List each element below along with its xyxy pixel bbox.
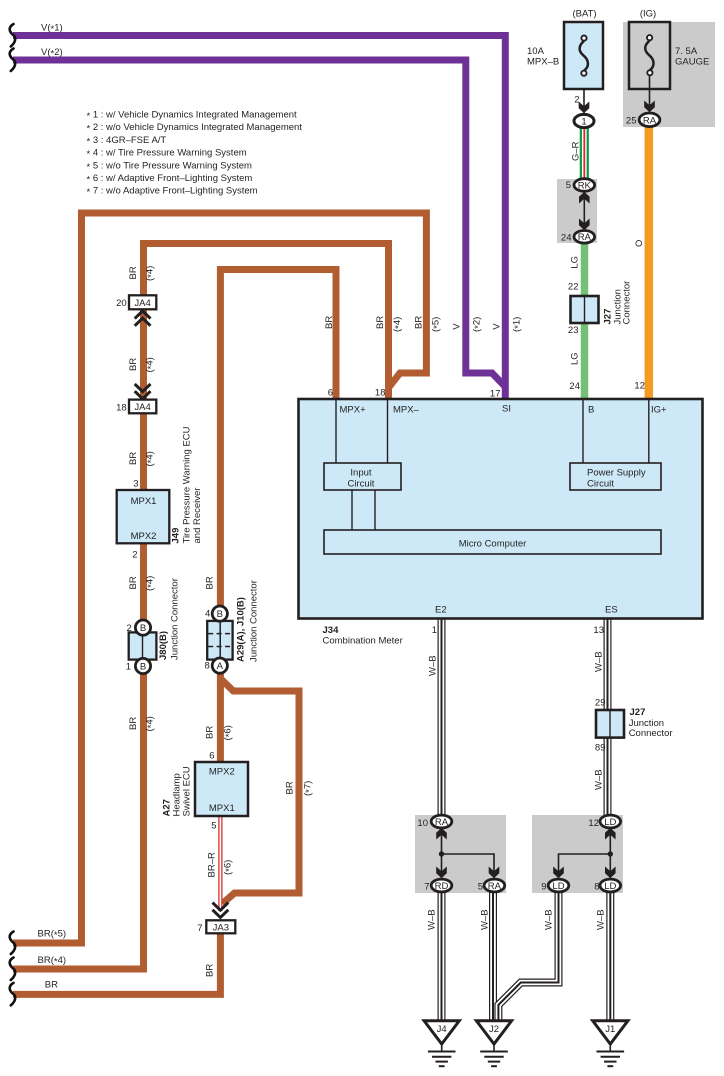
svg-text:7: 7 bbox=[424, 882, 429, 893]
internal wires input circuit to micro computer bbox=[352, 490, 375, 530]
wire BR(*5) brown outer loop from left bottom to meter pin 18 bbox=[13, 213, 426, 943]
svg-text:10: 10 bbox=[417, 818, 428, 829]
svg-text:* 4 : w/ Tire Pressure Warning: * 4 : w/ Tire Pressure Warning System bbox=[87, 148, 247, 161]
svg-text:24: 24 bbox=[561, 232, 572, 243]
svg-text:G–R: G–R bbox=[571, 141, 582, 161]
wire G-R green/red from connector 1 to RK bbox=[580, 124, 589, 183]
gray block around (IG) fuse bbox=[623, 22, 715, 127]
svg-text:Connector: Connector bbox=[629, 728, 673, 739]
connector 10 RA oval bbox=[431, 815, 452, 828]
svg-text:J2: J2 bbox=[489, 1024, 499, 1035]
junction dot bottom-right gray box bbox=[608, 851, 613, 856]
arrow down into 5 RA bbox=[489, 867, 500, 879]
svg-text:8: 8 bbox=[594, 882, 599, 893]
svg-text:(*5): (*5) bbox=[431, 317, 444, 332]
svg-text:RA: RA bbox=[488, 881, 502, 892]
internal wire pin 12 IG+ to power supply circuit bbox=[648, 400, 650, 463]
svg-text:(*2): (*2) bbox=[472, 317, 485, 332]
svg-text:17: 17 bbox=[490, 389, 501, 400]
svg-text:B: B bbox=[140, 623, 146, 634]
arrow up into 12 LD bbox=[605, 828, 616, 840]
svg-text:BR: BR bbox=[205, 964, 216, 977]
wire BR(*7) brown branch from connector A to JA3 bbox=[220, 679, 299, 904]
svg-text:A29(A), J10(B): A29(A), J10(B) bbox=[236, 597, 247, 662]
chevrons below JA4 20 bbox=[135, 311, 151, 326]
J49 tire pressure warning ECU box bbox=[117, 490, 170, 543]
frayed end V(*2) bbox=[10, 49, 15, 72]
svg-text:GAUGE: GAUGE bbox=[675, 57, 709, 68]
svg-text:Circuit: Circuit bbox=[348, 479, 375, 490]
svg-text:2: 2 bbox=[574, 95, 579, 106]
arrow into connector 1 bbox=[579, 102, 590, 114]
svg-text:W–B: W–B bbox=[427, 909, 438, 930]
fuse element BAT bbox=[580, 36, 588, 76]
fuse element IG bbox=[645, 35, 653, 75]
connector circle 4 B on A29 bbox=[212, 606, 227, 621]
junction connector J27 on W-B wire bbox=[596, 710, 624, 738]
svg-text:24: 24 bbox=[569, 381, 580, 392]
svg-text:V(*2): V(*2) bbox=[41, 47, 63, 60]
svg-text:E2: E2 bbox=[435, 605, 447, 616]
svg-text:LD: LD bbox=[604, 817, 616, 828]
gray block bottom-left (RA/RD/RA junction) bbox=[415, 815, 506, 893]
connector 12 LD oval bbox=[600, 815, 621, 828]
svg-text:(*1): (*1) bbox=[512, 317, 525, 332]
svg-text:(*4): (*4) bbox=[392, 317, 405, 332]
svg-text:2: 2 bbox=[127, 623, 132, 634]
svg-text:MPX+: MPX+ bbox=[340, 405, 367, 416]
frayed end BR bbox=[10, 983, 15, 1006]
combination meter J34 box bbox=[299, 399, 703, 619]
svg-text:3: 3 bbox=[133, 478, 138, 489]
svg-text:LD: LD bbox=[604, 881, 616, 892]
svg-text:1: 1 bbox=[581, 116, 586, 127]
svg-text:RA: RA bbox=[643, 115, 657, 126]
svg-text:J27: J27 bbox=[630, 707, 646, 718]
svg-text:18: 18 bbox=[375, 388, 386, 399]
svg-text:MPX2: MPX2 bbox=[131, 531, 157, 542]
svg-text:IG+: IG+ bbox=[651, 405, 667, 416]
svg-text:1: 1 bbox=[432, 625, 437, 636]
svg-text:RA: RA bbox=[578, 232, 592, 243]
svg-text:Circuit: Circuit bbox=[587, 479, 614, 490]
svg-text:RD: RD bbox=[435, 881, 449, 892]
connector JA4 pin 20 box bbox=[129, 295, 156, 309]
arrow into connector 25 RA bbox=[644, 101, 655, 113]
svg-text:BR: BR bbox=[205, 726, 216, 739]
svg-text:B: B bbox=[588, 405, 594, 416]
svg-text:BR(*4): BR(*4) bbox=[38, 955, 67, 968]
svg-text:W–B: W–B bbox=[594, 769, 605, 790]
svg-text:LG: LG bbox=[570, 352, 581, 365]
arrow down into 9 LD bbox=[553, 867, 564, 879]
wire BR(*4) brown middle loop through JA4/J49/J80(B) column to meter pin 18 bbox=[13, 244, 389, 970]
internal wire pin 24 B to power supply circuit bbox=[582, 400, 584, 463]
wire links inside bottom-left gray junction bbox=[442, 827, 495, 880]
frayed end BR(*5) bbox=[10, 932, 15, 955]
svg-text:6: 6 bbox=[209, 751, 214, 762]
arrow up into 10 RA bbox=[436, 828, 447, 840]
svg-text:LG: LG bbox=[570, 256, 581, 269]
svg-text:10A: 10A bbox=[527, 46, 545, 57]
svg-text:MPX1: MPX1 bbox=[209, 803, 235, 814]
wire BR-R red stripe from A27 pin 5 to JA3 bbox=[218, 816, 222, 911]
connector 5 RA oval bbox=[484, 879, 505, 892]
ground J4 bbox=[424, 1021, 459, 1066]
svg-text:J1: J1 bbox=[605, 1024, 615, 1035]
svg-text:(*4): (*4) bbox=[145, 266, 158, 281]
svg-text:* 7 : w/o Adaptive Front–Light: * 7 : w/o Adaptive Front–Lighting System bbox=[87, 186, 258, 199]
svg-text:BR: BR bbox=[128, 717, 139, 730]
svg-text:23: 23 bbox=[568, 325, 579, 336]
svg-text:B: B bbox=[140, 662, 146, 673]
svg-text:Input: Input bbox=[350, 468, 371, 479]
svg-text:BR: BR bbox=[324, 316, 335, 329]
svg-text:Junction Connector: Junction Connector bbox=[170, 578, 181, 660]
svg-text:22: 22 bbox=[568, 282, 579, 293]
fuse box (BAT) 10A MPX-B bbox=[564, 22, 603, 89]
junction connector A29(A),J10(B) grid box bbox=[207, 621, 232, 660]
connector oval 1 below fuse bbox=[574, 114, 594, 127]
svg-text:W–B: W–B bbox=[594, 651, 605, 672]
junction connector J27 on LG wire bbox=[571, 296, 599, 323]
wire W-B from connector 7 RD to ground J4 bbox=[438, 890, 446, 1021]
svg-text:J34: J34 bbox=[323, 625, 340, 636]
gray block around RK/RA connectors 5/24 bbox=[557, 179, 597, 243]
svg-text:5: 5 bbox=[478, 882, 483, 893]
fuse box (IG) 7.5A GAUGE bbox=[629, 22, 670, 89]
wire W-B from connector 5 RA to ground J2 bbox=[489, 890, 497, 1021]
svg-text:(IG): (IG) bbox=[640, 9, 656, 20]
connector 7 RD oval bbox=[431, 879, 452, 892]
svg-text:J49: J49 bbox=[171, 528, 182, 544]
micro computer box bbox=[324, 530, 661, 554]
svg-text:5: 5 bbox=[211, 821, 216, 832]
connector 5 RK oval bbox=[574, 179, 595, 192]
svg-text:18: 18 bbox=[116, 403, 127, 414]
svg-text:BR(*5): BR(*5) bbox=[38, 929, 67, 942]
svg-text:J80(B): J80(B) bbox=[158, 631, 169, 660]
svg-text:W–B: W–B bbox=[544, 909, 555, 930]
internal wire pin 6 to input circuit bbox=[335, 400, 337, 463]
gray block bottom-right (LD junction) bbox=[532, 815, 623, 893]
wire W-B from connector 8 LD to ground J1 bbox=[606, 890, 614, 1021]
svg-text:O: O bbox=[634, 240, 645, 247]
svg-text:W–B: W–B bbox=[596, 909, 607, 930]
connector 8 LD oval bbox=[600, 879, 621, 892]
svg-text:8: 8 bbox=[205, 661, 210, 672]
svg-text:BR: BR bbox=[128, 576, 139, 589]
svg-text:(*6): (*6) bbox=[223, 860, 236, 875]
svg-text:(*4): (*4) bbox=[145, 357, 158, 372]
svg-text:Power Supply: Power Supply bbox=[587, 468, 646, 479]
svg-text:9: 9 bbox=[541, 882, 546, 893]
arrow up into RK 5 bbox=[579, 192, 590, 204]
svg-text:MPX1: MPX1 bbox=[131, 496, 157, 507]
svg-text:(*4): (*4) bbox=[145, 716, 158, 731]
wire thin link fuse MPX-B to connector 1 bbox=[583, 76, 585, 116]
wire W-B from meter E2 pin 1 to connector 10 RA bbox=[438, 618, 446, 817]
svg-text:29: 29 bbox=[595, 698, 606, 709]
connector circle 8 A on A29 bbox=[212, 658, 227, 673]
svg-text:RA: RA bbox=[435, 817, 449, 828]
wire V(*2) purple joining V(*1) above pin 17 bbox=[13, 60, 505, 387]
svg-text:A: A bbox=[217, 661, 224, 672]
connector circle 2 B on J80 bbox=[135, 620, 150, 635]
svg-text:4: 4 bbox=[205, 609, 210, 620]
connector JA3 pin 7 box bbox=[206, 920, 235, 933]
svg-text:J4: J4 bbox=[437, 1024, 447, 1035]
svg-text:BR: BR bbox=[45, 980, 58, 991]
svg-text:(*4): (*4) bbox=[145, 451, 158, 466]
connector circle 1 B on J80 bbox=[135, 658, 150, 673]
svg-text:1: 1 bbox=[126, 661, 131, 672]
svg-text:* 5 : w/o Tire Pressure Warnin: * 5 : w/o Tire Pressure Warning System bbox=[87, 160, 253, 173]
svg-text:V: V bbox=[492, 323, 503, 330]
svg-text:Junction Connector: Junction Connector bbox=[249, 580, 260, 662]
svg-text:Connector: Connector bbox=[622, 281, 633, 325]
arrow down into RA 24 bbox=[579, 219, 590, 231]
A27 headlamp swivel ECU box bbox=[195, 762, 248, 816]
connector 24 RA oval bbox=[574, 231, 595, 244]
svg-text:LD: LD bbox=[552, 881, 564, 892]
wire thin link fuse GAUGE to connector 25 RA bbox=[649, 76, 651, 114]
svg-text:BR: BR bbox=[285, 781, 296, 794]
svg-text:BR: BR bbox=[375, 316, 386, 329]
wire links inside bottom-right gray junction bbox=[559, 827, 611, 880]
svg-text:MPX–: MPX– bbox=[393, 405, 420, 416]
wire BR brown below JA3 to left edge bbox=[13, 922, 220, 995]
svg-text:89: 89 bbox=[595, 743, 606, 754]
svg-text:V: V bbox=[452, 323, 463, 330]
svg-text:B: B bbox=[217, 609, 223, 620]
wire W-B from connector 9 LD jogging left to ground J2 bbox=[498, 890, 558, 1021]
svg-text:(BAT): (BAT) bbox=[572, 9, 596, 20]
svg-text:W–B: W–B bbox=[480, 909, 491, 930]
svg-text:and Receiver: and Receiver bbox=[192, 488, 203, 544]
frayed end BR(*4) bbox=[10, 958, 15, 981]
ground J1 bbox=[593, 1021, 628, 1066]
svg-text:JA4: JA4 bbox=[134, 298, 150, 309]
svg-text:(*7): (*7) bbox=[303, 781, 316, 796]
svg-text:BR: BR bbox=[128, 452, 139, 465]
junction dot bottom-left gray box bbox=[439, 851, 444, 856]
svg-text:Micro Computer: Micro Computer bbox=[459, 539, 527, 550]
svg-text:Tire Pressure Warning ECU: Tire Pressure Warning ECU bbox=[182, 426, 193, 543]
wire O orange from RA 25 to meter pin 12 bbox=[645, 122, 654, 400]
internal wire pin 18 to input circuit bbox=[387, 400, 389, 463]
svg-text:MPX–B: MPX–B bbox=[527, 57, 559, 68]
svg-text:* 2 : w/o Vehicle Dynamics Int: * 2 : w/o Vehicle Dynamics Integrated Ma… bbox=[87, 122, 303, 135]
svg-text:(*4): (*4) bbox=[145, 576, 158, 591]
wire V(*1) purple from left to combination meter pin 17 bbox=[13, 36, 505, 401]
input circuit box bbox=[324, 463, 401, 490]
svg-text:12: 12 bbox=[634, 381, 645, 392]
svg-text:BR: BR bbox=[128, 266, 139, 279]
chevrons above JA3 bbox=[213, 903, 229, 918]
chevrons above JA4 18 bbox=[135, 384, 151, 399]
power supply circuit box bbox=[570, 463, 661, 490]
frayed end V(*1) bbox=[10, 24, 15, 47]
svg-text:(*6): (*6) bbox=[223, 725, 236, 740]
svg-text:* 3 : 4GR–FSE A/T: * 3 : 4GR–FSE A/T bbox=[87, 135, 167, 148]
svg-text:* 6 : w/ Adaptive Front–Lighti: * 6 : w/ Adaptive Front–Lighting System bbox=[87, 173, 253, 186]
connector 25 RA oval bbox=[639, 113, 660, 127]
wire link RK 5 to RA 24 bbox=[583, 191, 585, 231]
arrow down into 8 LD bbox=[605, 867, 616, 879]
svg-text:Swivel ECU: Swivel ECU bbox=[182, 766, 193, 816]
svg-text:7. 5A: 7. 5A bbox=[675, 46, 698, 57]
svg-text:12: 12 bbox=[588, 818, 599, 829]
svg-text:MPX2: MPX2 bbox=[209, 767, 235, 778]
svg-text:ES: ES bbox=[605, 605, 618, 616]
ground J2 bbox=[476, 1021, 511, 1066]
svg-text:* 1 : w/ Vehicle Dynamics Inte: * 1 : w/ Vehicle Dynamics Integrated Man… bbox=[87, 110, 298, 123]
svg-text:RK: RK bbox=[578, 180, 592, 191]
svg-text:V(*1): V(*1) bbox=[41, 23, 63, 36]
legend note list bbox=[87, 110, 303, 199]
svg-text:5: 5 bbox=[566, 180, 571, 191]
connector 9 LD oval bbox=[548, 879, 569, 892]
svg-text:JA3: JA3 bbox=[213, 922, 229, 933]
svg-text:BR: BR bbox=[205, 576, 216, 589]
svg-text:BR: BR bbox=[128, 358, 139, 371]
svg-text:BR–R: BR–R bbox=[207, 852, 218, 877]
connector JA4 pin 18 box bbox=[129, 400, 156, 414]
svg-text:BR: BR bbox=[414, 316, 425, 329]
wire LG light green from RA 24 to meter pin 24 bbox=[581, 240, 589, 400]
svg-text:W–B: W–B bbox=[428, 655, 439, 676]
svg-text:13: 13 bbox=[593, 625, 604, 636]
svg-text:JA4: JA4 bbox=[134, 402, 150, 413]
svg-text:2: 2 bbox=[132, 550, 137, 561]
svg-text:Combination Meter: Combination Meter bbox=[323, 636, 403, 647]
svg-text:20: 20 bbox=[116, 298, 127, 309]
wire BR brown inner loop through A29 column to meter pin 6 bbox=[220, 270, 336, 763]
svg-text:7: 7 bbox=[197, 923, 202, 934]
junction connector J80(B) box bbox=[129, 632, 157, 659]
svg-text:25: 25 bbox=[626, 116, 637, 127]
svg-text:SI: SI bbox=[502, 404, 511, 415]
svg-text:6: 6 bbox=[328, 388, 333, 399]
wire W-B from meter ES pin 13 to connector 12 LD bbox=[604, 618, 612, 817]
arrow down into 7 RD bbox=[436, 867, 447, 879]
